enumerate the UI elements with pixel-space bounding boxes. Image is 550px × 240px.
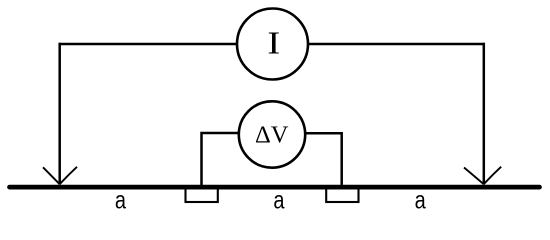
electrode box P1 (left inner probe)	[186, 187, 218, 203]
electrode box P2 (right inner probe)	[326, 187, 358, 203]
svg-text:a: a	[115, 186, 126, 214]
svg-text:I: I	[267, 25, 280, 60]
svg-text:ΔV: ΔV	[255, 122, 289, 149]
svg-text:a: a	[415, 186, 426, 214]
voltmeter circle dV	[239, 101, 305, 167]
surface line (material under test)	[10, 185, 540, 190]
voltmeter left wire	[202, 133, 239, 186]
wire left vertical (current electrode C1)	[58, 43, 61, 185]
wire top-right horizontal	[308, 43, 485, 46]
arrowhead right electrode	[464, 167, 501, 185]
arrowhead left electrode	[43, 167, 77, 184]
ammeter circle I	[237, 9, 308, 80]
svg-text:a: a	[273, 186, 284, 214]
wire top-left horizontal	[59, 43, 238, 46]
voltmeter right wire	[306, 133, 342, 186]
wire right vertical (current electrode C2)	[483, 43, 486, 185]
